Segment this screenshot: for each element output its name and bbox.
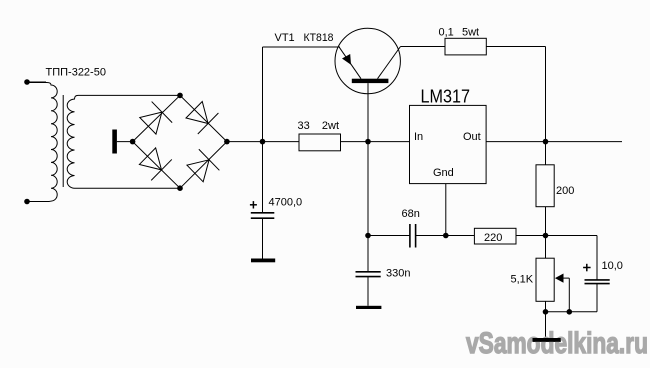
svg-text:5,1K: 5,1K xyxy=(511,274,534,286)
svg-text:330n: 330n xyxy=(386,268,410,280)
svg-text:Out: Out xyxy=(463,131,481,143)
svg-text:33: 33 xyxy=(298,120,310,132)
svg-text:LM317: LM317 xyxy=(421,87,471,107)
svg-text:Gnd: Gnd xyxy=(433,167,454,179)
svg-text:vSamodelkina.ru: vSamodelkina.ru xyxy=(466,327,648,360)
svg-text:ТПП-322-50: ТПП-322-50 xyxy=(46,67,106,79)
svg-text:220: 220 xyxy=(484,232,502,244)
svg-text:5wt: 5wt xyxy=(462,27,479,39)
svg-text:200: 200 xyxy=(556,185,574,197)
svg-text:VT1: VT1 xyxy=(275,32,295,44)
svg-text:КТ818: КТ818 xyxy=(304,32,334,44)
svg-text:2wt: 2wt xyxy=(322,120,339,132)
svg-text:In: In xyxy=(414,131,423,143)
svg-text:0,1: 0,1 xyxy=(439,27,454,39)
svg-text:68n: 68n xyxy=(402,208,420,220)
svg-text:10,0: 10,0 xyxy=(602,260,623,272)
svg-text:4700,0: 4700,0 xyxy=(269,197,303,209)
